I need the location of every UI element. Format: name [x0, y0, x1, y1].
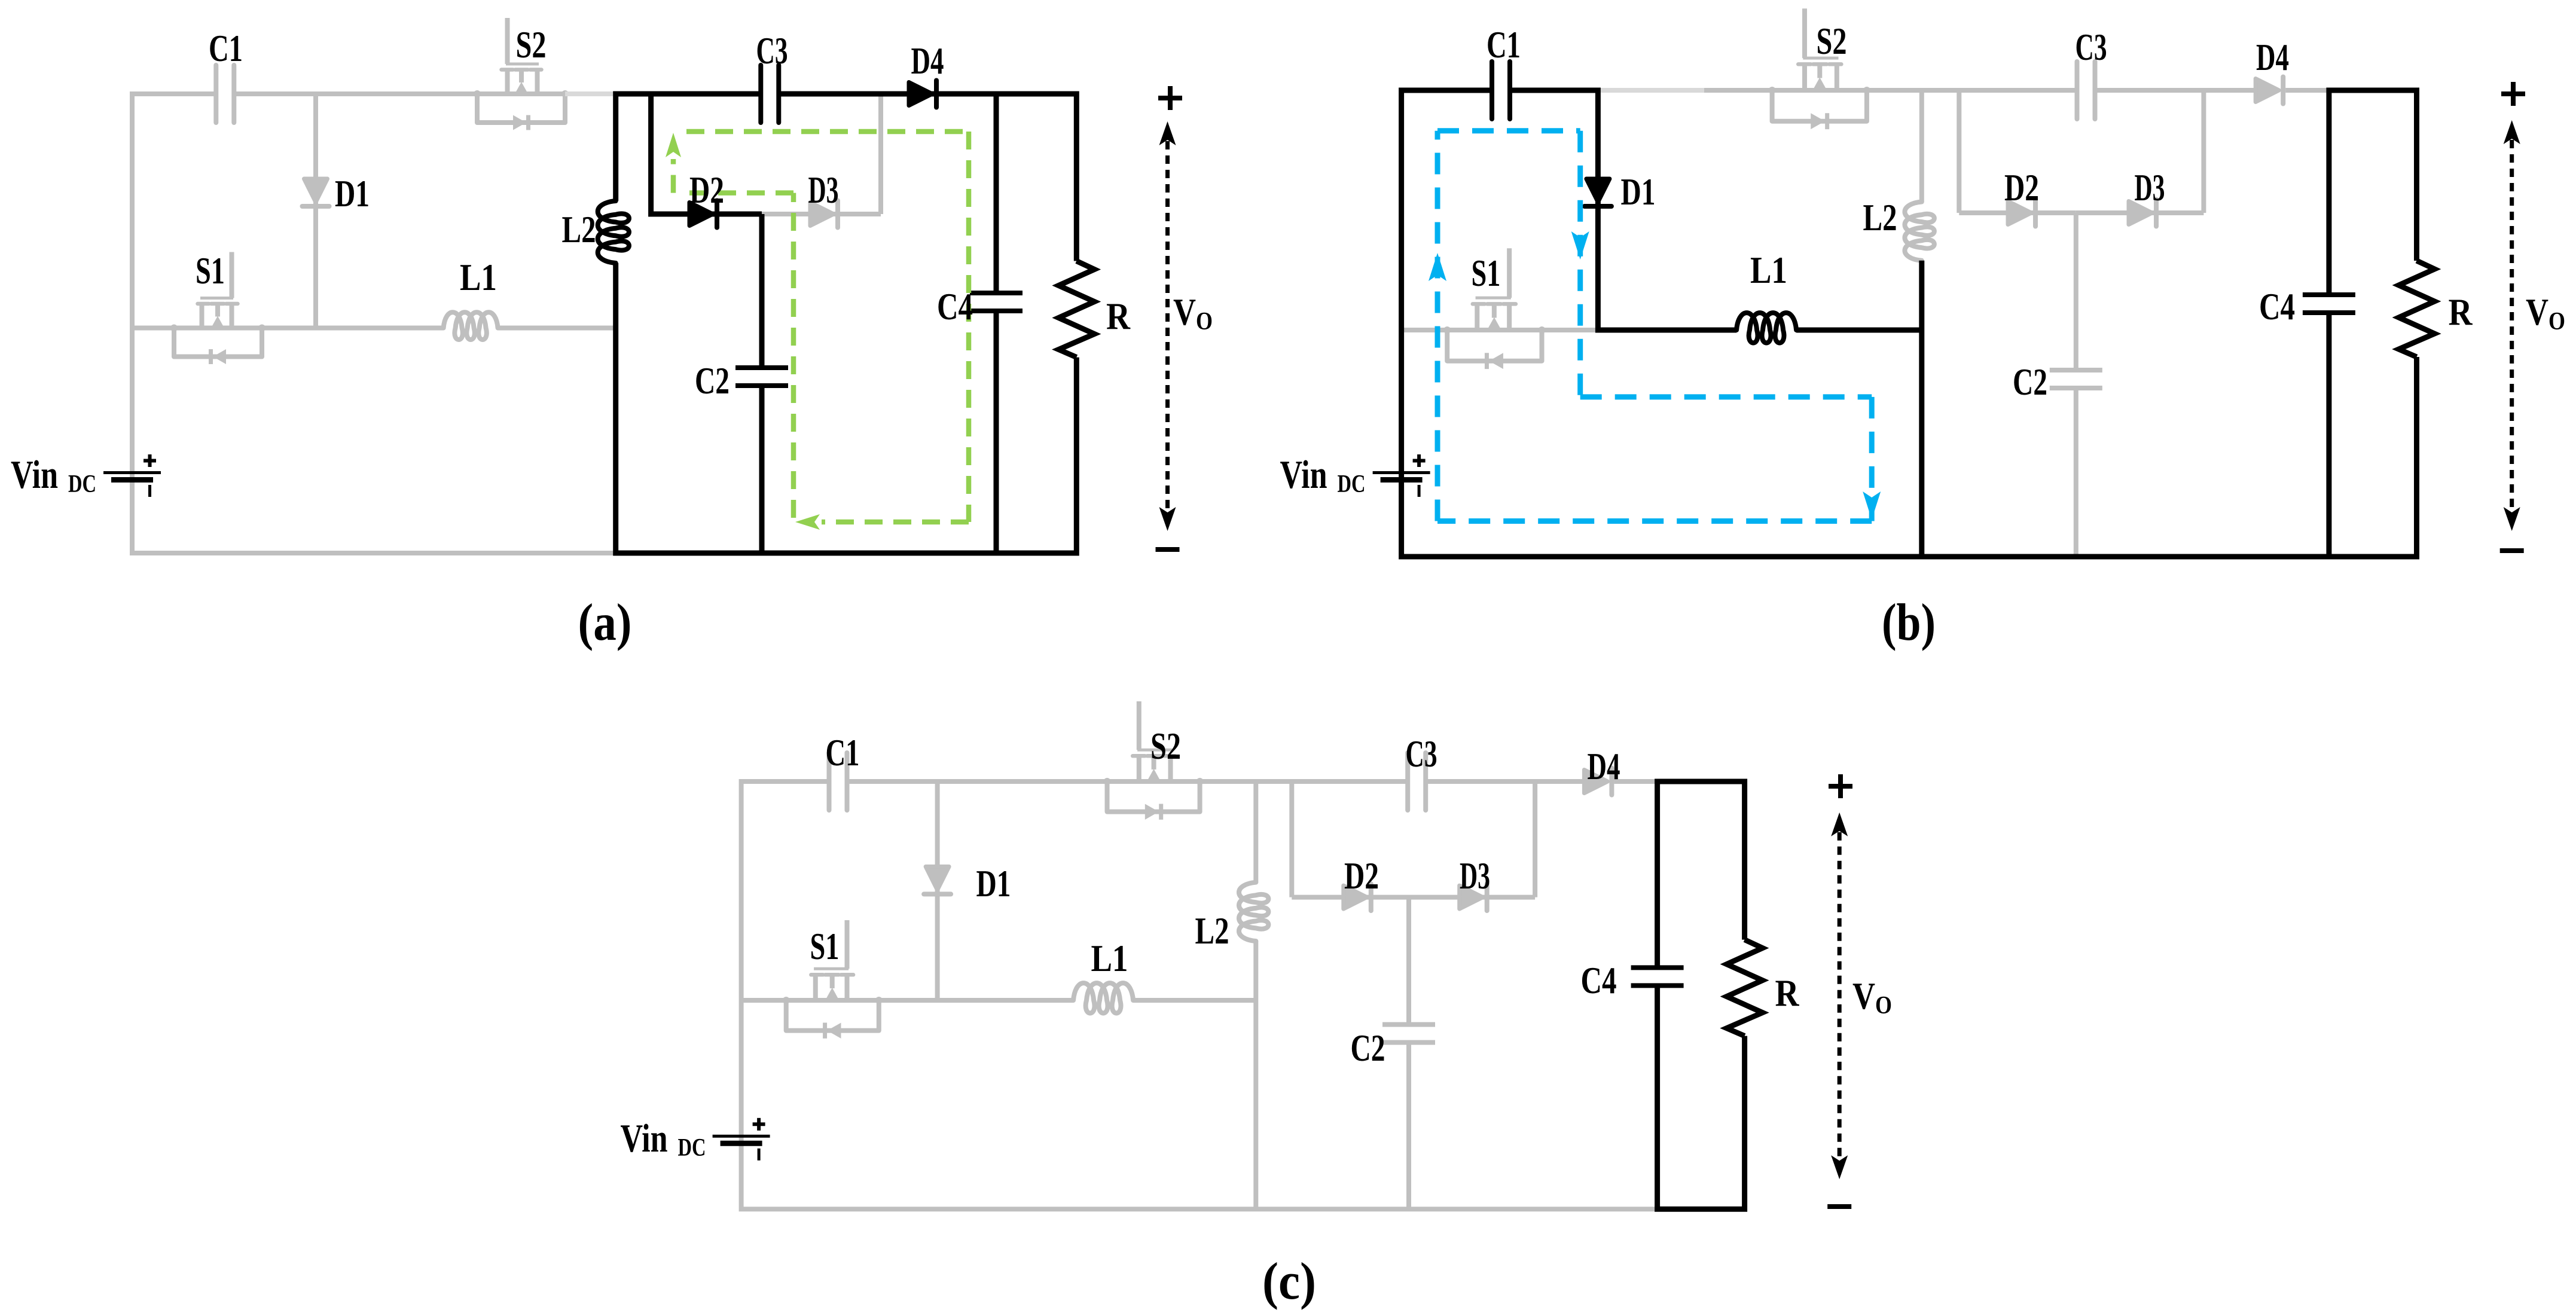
svg-text:D1: D1: [1621, 171, 1656, 213]
svg-text:R: R: [2449, 291, 2473, 333]
svg-text:Vin: Vin: [11, 453, 58, 497]
svg-text:S2: S2: [516, 24, 547, 66]
svg-text:D2: D2: [689, 169, 724, 211]
svg-text:C3: C3: [2076, 26, 2107, 68]
svg-text:O: O: [1875, 992, 1892, 1019]
svg-text:DC: DC: [678, 1134, 706, 1162]
svg-text:C2: C2: [695, 360, 730, 402]
svg-text:C4: C4: [1581, 960, 1617, 1001]
svg-text:V: V: [1852, 975, 1875, 1017]
svg-text:D3: D3: [2135, 167, 2165, 209]
svg-text:C2: C2: [1351, 1027, 1385, 1069]
svg-text:(c): (c): [1262, 1253, 1316, 1311]
svg-text:D4: D4: [911, 40, 944, 82]
svg-text:(b): (b): [1882, 594, 1936, 652]
svg-text:DC: DC: [1338, 471, 1366, 498]
svg-text:L1: L1: [1091, 938, 1128, 979]
svg-text:C3: C3: [1406, 733, 1437, 775]
svg-text:R: R: [1106, 295, 1131, 337]
svg-text:L1: L1: [1750, 249, 1787, 291]
svg-text:D1: D1: [976, 863, 1011, 905]
svg-text:O: O: [1196, 308, 1213, 335]
svg-text:V: V: [2526, 291, 2548, 333]
svg-text:C1: C1: [826, 732, 860, 774]
svg-text:R: R: [1775, 972, 1800, 1014]
svg-text:(a): (a): [578, 594, 632, 652]
svg-text:D2: D2: [1344, 855, 1379, 897]
svg-text:C3: C3: [756, 30, 788, 72]
svg-text:S2: S2: [1817, 20, 1847, 62]
svg-text:D4: D4: [2256, 36, 2289, 78]
svg-text:D2: D2: [2004, 167, 2039, 209]
svg-text:C4: C4: [937, 286, 973, 328]
svg-text:Vin: Vin: [1280, 453, 1327, 497]
svg-text:C4: C4: [2259, 286, 2295, 328]
svg-text:S1: S1: [196, 250, 225, 292]
svg-text:S1: S1: [810, 926, 840, 967]
svg-text:S1: S1: [1472, 252, 1501, 294]
svg-text:L1: L1: [460, 257, 497, 298]
svg-text:D3: D3: [1460, 855, 1490, 897]
svg-text:C1: C1: [209, 28, 243, 69]
svg-text:L2: L2: [1195, 910, 1229, 952]
svg-text:C1: C1: [1487, 24, 1521, 66]
svg-text:D1: D1: [335, 173, 370, 215]
svg-text:DC: DC: [68, 471, 96, 498]
svg-text:D3: D3: [808, 169, 839, 211]
svg-text:V: V: [1173, 291, 1196, 333]
svg-text:D4: D4: [1588, 746, 1620, 787]
svg-text:L2: L2: [562, 209, 596, 251]
svg-text:Vin: Vin: [621, 1116, 668, 1161]
svg-text:S2: S2: [1150, 725, 1181, 767]
svg-text:L2: L2: [1863, 197, 1897, 239]
svg-text:C2: C2: [2013, 361, 2047, 403]
svg-text:O: O: [2548, 308, 2565, 335]
